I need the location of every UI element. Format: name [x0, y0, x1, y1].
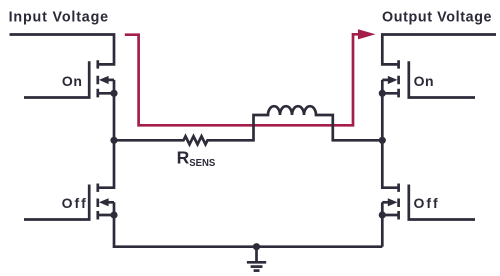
- svg-text:On: On: [414, 73, 434, 89]
- svg-text:Off: Off: [414, 195, 439, 211]
- svg-text:Input Voltage: Input Voltage: [9, 10, 109, 26]
- svg-text:Off: Off: [62, 195, 87, 211]
- svg-text:R: R: [177, 147, 190, 167]
- svg-text:Output Voltage: Output Voltage: [382, 10, 492, 26]
- svg-text:SENS: SENS: [189, 157, 215, 169]
- svg-text:On: On: [62, 73, 82, 89]
